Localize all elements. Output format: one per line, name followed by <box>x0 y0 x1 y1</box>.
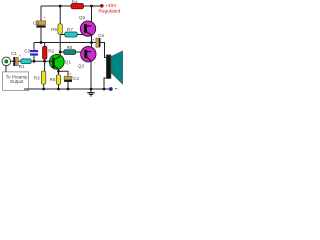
wire Q3 emitter to ground rail <box>90 61 92 89</box>
resistor R8 <box>64 45 76 55</box>
svg-text:Q2: Q2 <box>79 15 86 20</box>
wire bottom rail <box>24 88 110 90</box>
ground <box>87 89 94 96</box>
svg-text:C3: C3 <box>33 21 39 26</box>
transistor Q1 <box>49 54 71 69</box>
svg-text:R4: R4 <box>72 0 78 4</box>
wire Q2 emitter to Q3 collector <box>91 35 93 51</box>
wire Q1 collector lead <box>59 52 61 57</box>
wire R3 bottom lead <box>43 84 45 89</box>
resistor R4 <box>71 0 84 9</box>
node top Q2 junction <box>90 5 93 8</box>
terminal +40V <box>98 3 120 14</box>
node Q1 collector junction <box>59 51 62 54</box>
wire R2 top lead <box>44 43 46 47</box>
wire speaker bottom <box>104 78 107 89</box>
node speaker rail junction <box>103 88 106 91</box>
capacitor C3 <box>33 15 46 27</box>
transistor Q2 <box>79 15 96 36</box>
wire Q1 emitter lead <box>58 69 60 75</box>
svg-text:C5: C5 <box>98 33 104 38</box>
resistor R6 <box>51 24 62 34</box>
capacitor C1 <box>11 51 22 66</box>
svg-text:C4: C4 <box>73 76 79 81</box>
wire R7 left lead <box>60 34 65 36</box>
resistor R2 <box>43 46 55 59</box>
svg-text:Regulated: Regulated <box>98 8 120 14</box>
wire mid horizontal <box>34 42 92 44</box>
node Q2 emitter junction <box>90 41 93 44</box>
wire left drop to C3 <box>40 6 42 21</box>
wire R7 right lead to Q2 base <box>77 34 84 36</box>
svg-text:Q1: Q1 <box>65 60 72 65</box>
wire C2 bottom lead <box>33 56 35 62</box>
resistor R5 <box>50 75 61 85</box>
wire C5 to speaker top <box>100 43 106 58</box>
wire emitter to C4 <box>59 71 69 76</box>
svg-text:R1: R1 <box>19 64 25 69</box>
svg-text:+40V: +40V <box>105 3 117 9</box>
node C3 mid junction <box>40 41 43 44</box>
transistor Q3 <box>78 47 96 69</box>
wire R3 top lead <box>44 61 46 71</box>
svg-text:+: + <box>43 15 46 20</box>
node R2 R3 base junction <box>43 60 46 63</box>
node C2 base junction <box>33 60 36 63</box>
wire R5 bottom lead <box>58 84 60 89</box>
svg-text:+: + <box>19 54 22 59</box>
wire R2 bottom lead <box>44 59 46 61</box>
svg-text:R8: R8 <box>67 45 73 50</box>
svg-text:C2: C2 <box>24 49 30 54</box>
svg-text:R7: R7 <box>67 27 73 32</box>
node top R6 junction <box>59 5 62 8</box>
resistor R1 <box>19 59 32 69</box>
node ground rail junction <box>90 88 93 91</box>
resistor R7 <box>65 27 77 37</box>
svg-text:C1: C1 <box>11 51 17 56</box>
wire R6 bottom vertical <box>59 34 61 52</box>
node Q1 emitter junction <box>57 70 60 73</box>
capacitor C2 <box>24 49 38 56</box>
label box To Preamp Output <box>3 72 29 91</box>
node C4 rail junction <box>67 88 70 91</box>
capacitor C4 <box>64 71 79 82</box>
wire C4 bottom lead <box>67 82 69 89</box>
wire bottom rail left end <box>24 88 30 90</box>
input jack <box>2 57 11 66</box>
resistor R3 <box>34 71 46 84</box>
terminal negative <box>109 87 118 91</box>
wire C2 top lead <box>33 43 35 51</box>
wire R8 right lead to Q3 base <box>76 51 85 53</box>
svg-text:R5: R5 <box>50 77 56 82</box>
wire R6 top lead <box>59 6 61 24</box>
wire top rail <box>41 5 102 7</box>
svg-text:Output: Output <box>10 79 24 84</box>
wire C3 bottom lead <box>40 28 42 43</box>
wire input base line <box>11 60 51 62</box>
svg-text:+: + <box>69 71 72 76</box>
svg-text:R3: R3 <box>34 76 40 81</box>
wire Q2 collector <box>91 6 93 26</box>
node R5 rail junction <box>57 88 60 91</box>
wire jack stub <box>5 66 7 72</box>
svg-text:R2: R2 <box>48 48 54 53</box>
capacitor C5 <box>92 33 104 48</box>
node R3 rail junction <box>42 88 45 91</box>
wire C5 left lead <box>92 42 96 44</box>
wire R8 left lead <box>60 51 64 53</box>
svg-text:Q3: Q3 <box>78 64 85 69</box>
speaker SPKR <box>106 51 122 84</box>
svg-text:R6: R6 <box>51 27 57 32</box>
